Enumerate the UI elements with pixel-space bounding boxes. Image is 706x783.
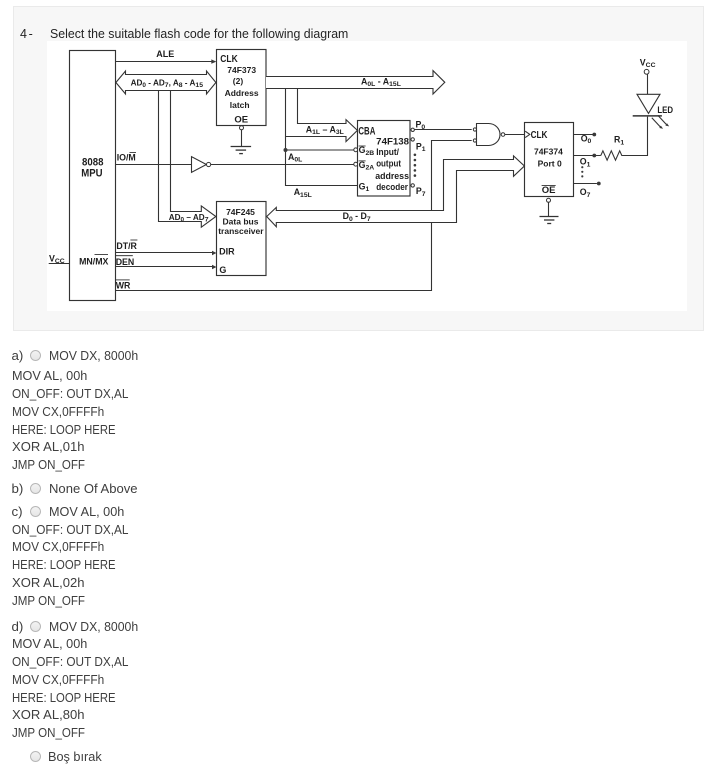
svg-text:DIR: DIR: [219, 247, 235, 257]
svg-text:WR: WR: [116, 280, 131, 290]
svg-text:address: address: [375, 171, 409, 182]
svg-text:DT/R: DT/R: [116, 241, 137, 251]
svg-text:G: G: [219, 265, 226, 275]
svg-text:ALE: ALE: [156, 49, 174, 59]
svg-text:CBA: CBA: [358, 125, 375, 137]
svg-text:MN/MX: MN/MX: [79, 257, 108, 267]
svg-text:(2): (2): [233, 76, 244, 86]
svg-text:LED: LED: [657, 105, 673, 116]
svg-text:IO/M: IO/M: [117, 153, 136, 163]
svg-text:G2B: G2B: [359, 145, 375, 157]
svg-text:VCC: VCC: [49, 254, 65, 266]
svg-text:74F373: 74F373: [227, 65, 256, 75]
svg-text:P1: P1: [416, 141, 426, 153]
svg-text:O0: O0: [581, 133, 592, 145]
svg-text:74F374: 74F374: [534, 147, 563, 157]
svg-text:decoder: decoder: [376, 182, 408, 193]
svg-text:O7: O7: [580, 187, 591, 199]
svg-text:A0L: A0L: [288, 152, 302, 164]
svg-text:Input/: Input/: [376, 147, 399, 158]
svg-text:R1: R1: [614, 135, 624, 147]
svg-text:O1: O1: [580, 157, 591, 169]
svg-text:DEN: DEN: [116, 257, 135, 267]
svg-text:output: output: [376, 158, 401, 169]
svg-text:Address: Address: [225, 88, 259, 98]
svg-text:CLK: CLK: [220, 54, 238, 65]
svg-text:OE: OE: [234, 114, 248, 125]
svg-text:CLK: CLK: [531, 130, 549, 141]
svg-text:VCC: VCC: [640, 57, 656, 69]
svg-text:P7: P7: [416, 186, 426, 198]
svg-text:G1: G1: [359, 182, 370, 194]
svg-text:A1L – A3L: A1L – A3L: [306, 124, 344, 136]
svg-text:P0: P0: [416, 119, 426, 131]
svg-text:D0 - D7: D0 - D7: [343, 211, 371, 223]
svg-text:latch: latch: [230, 100, 250, 110]
svg-text:transceiver: transceiver: [218, 226, 264, 236]
svg-text:A15L: A15L: [294, 187, 312, 199]
svg-text:OE: OE: [542, 185, 556, 196]
svg-text:74F245: 74F245: [226, 207, 255, 217]
svg-text:Port 0: Port 0: [538, 158, 562, 168]
svg-text:G2A: G2A: [359, 160, 375, 172]
svg-text:MPU: MPU: [81, 168, 102, 180]
svg-text:8088: 8088: [82, 157, 104, 169]
